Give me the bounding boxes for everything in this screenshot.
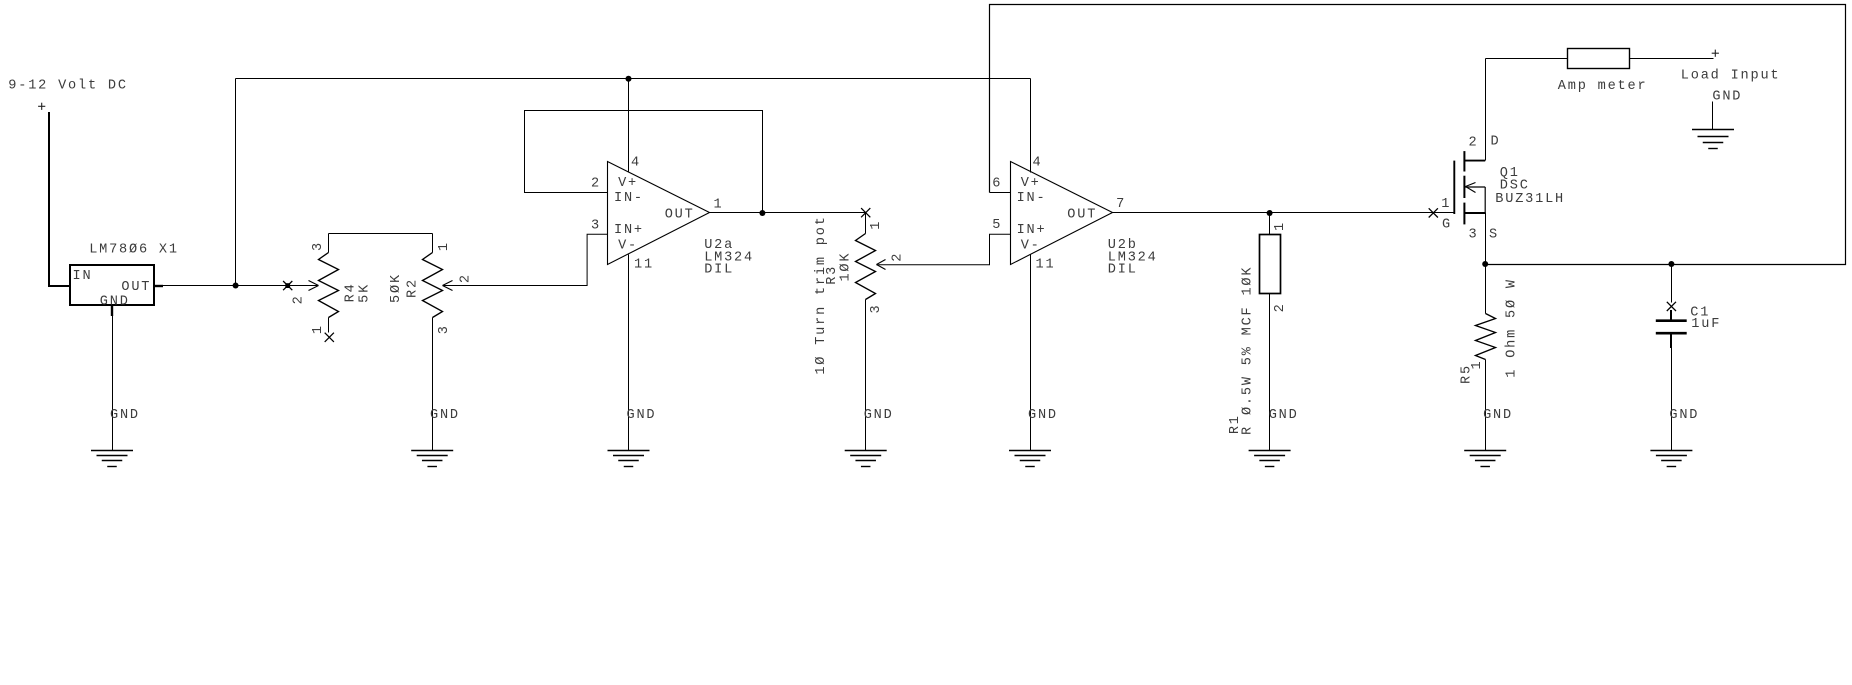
svg-text:R5: R5 — [1459, 364, 1474, 384]
wire input to regulator IN — [49, 112, 70, 286]
svg-text:V+: V+ — [1021, 176, 1041, 191]
wire U2a pin 11 to ground — [628, 255, 630, 451]
ground symbol at R2 — [411, 451, 453, 467]
ground symbol at C1 — [1650, 451, 1692, 467]
svg-text:IN+: IN+ — [614, 223, 644, 238]
junction Q1 source node — [1482, 261, 1488, 267]
wire riser VREG to top rail — [235, 79, 237, 286]
svg-text:S: S — [1489, 228, 1499, 243]
op-amp U2b triangle — [1011, 162, 1113, 265]
svg-text:5ØK: 5ØK — [389, 273, 404, 303]
svg-text:R4: R4 — [344, 282, 359, 302]
junction X marker at R4 wiper node — [283, 281, 292, 290]
svg-text:GND: GND — [627, 408, 657, 423]
svg-text:OUT: OUT — [121, 280, 151, 295]
trim pot R3 body — [856, 234, 876, 300]
svg-text:1: 1 — [1273, 221, 1288, 231]
svg-text:OUT: OUT — [665, 207, 695, 222]
svg-text:DIL: DIL — [1108, 263, 1138, 278]
junction U2a output node — [759, 210, 765, 216]
svg-text:1ØK: 1ØK — [838, 252, 853, 282]
svg-text:IN: IN — [73, 269, 93, 284]
wire amp meter to load plus — [1630, 58, 1714, 60]
ground symbol at X1 — [91, 451, 133, 467]
svg-text:V-: V- — [1021, 238, 1041, 253]
ground symbol at load input — [1692, 130, 1734, 149]
svg-text:1Ø Turn trim pot: 1Ø Turn trim pot — [814, 215, 829, 374]
svg-text:2: 2 — [1469, 135, 1479, 150]
wire R3 wiper to U2b IN+ — [876, 234, 1010, 269]
svg-text:1: 1 — [311, 324, 326, 334]
wire U2a feedback OUT to IN- — [525, 111, 763, 213]
svg-text:5K: 5K — [357, 283, 372, 303]
plus terminal load input — [1712, 50, 1719, 57]
X marker C1 top node — [1667, 302, 1676, 311]
pin stub X1 OUT — [154, 285, 163, 287]
ground symbol at R1 — [1249, 451, 1291, 467]
wire R3 top — [865, 213, 867, 234]
wire R4 top — [328, 234, 330, 253]
svg-text:Amp meter: Amp meter — [1558, 79, 1648, 94]
wire U2a pin 4 from top rail — [628, 79, 630, 173]
svg-text:Load Input: Load Input — [1681, 68, 1781, 83]
svg-text:6: 6 — [992, 176, 1002, 191]
wire Q1 drain up to amp meter — [1485, 59, 1487, 161]
resistor R1 body — [1260, 235, 1281, 294]
ground symbol at U2a — [608, 451, 650, 467]
capacitor C1 plates — [1656, 321, 1687, 334]
svg-text:2: 2 — [291, 294, 306, 304]
junction top rail at U2a pin4 — [626, 76, 632, 82]
voltage regulator X1 LM7806 — [70, 265, 154, 305]
wire R4 wiper arrow — [288, 281, 319, 291]
pin stub C1 bottom — [1670, 333, 1672, 348]
wire R5 top — [1485, 265, 1487, 314]
svg-text:R Ø.5W 5% MCF 1ØK: R Ø.5W 5% MCF 1ØK — [1241, 266, 1256, 435]
wire C1 top — [1671, 265, 1673, 303]
svg-text:GND: GND — [1712, 89, 1742, 104]
svg-text:BUZ31LH: BUZ31LH — [1495, 192, 1565, 207]
potentiometer R2 body — [423, 253, 443, 318]
wire load ground stub — [1712, 102, 1714, 130]
svg-text:2: 2 — [591, 176, 601, 191]
wire R3 bottom to ground — [865, 300, 867, 451]
svg-text:IN+: IN+ — [1017, 223, 1047, 238]
svg-text:GND: GND — [864, 408, 894, 423]
pin stub C1 top — [1670, 310, 1672, 321]
ground symbol at U2b — [1009, 451, 1051, 467]
wire U2b output to Q1 gate — [1113, 212, 1455, 214]
svg-text:D: D — [1491, 135, 1501, 150]
transistor Q1 MOSFET symbol — [1454, 151, 1485, 224]
wire R2 top — [432, 234, 434, 253]
junction U2b output at R1 — [1267, 210, 1273, 216]
svg-text:1: 1 — [1441, 197, 1451, 212]
svg-text:11: 11 — [634, 258, 654, 273]
svg-text:R2: R2 — [405, 278, 420, 298]
svg-text:IN-: IN- — [614, 191, 644, 206]
svg-text:1: 1 — [437, 241, 452, 251]
svg-text:2: 2 — [890, 252, 905, 262]
svg-text:2: 2 — [458, 273, 473, 283]
junction node VREG at OUT — [233, 283, 239, 289]
wire U2a output to R3 — [710, 212, 866, 214]
svg-text:1: 1 — [869, 220, 884, 230]
op-amp U2a triangle — [608, 162, 710, 265]
X marker R3 pin 1 node — [861, 208, 870, 217]
svg-text:1uF: 1uF — [1691, 317, 1721, 332]
svg-text:2: 2 — [1273, 302, 1288, 312]
svg-text:4: 4 — [631, 156, 641, 171]
svg-text:9-12 Volt DC: 9-12 Volt DC — [8, 78, 128, 93]
svg-text:7: 7 — [1116, 197, 1126, 212]
junction C1 top node — [1668, 261, 1674, 267]
wire C1 bottom to ground — [1671, 348, 1673, 451]
svg-text:V+: V+ — [618, 176, 638, 191]
svg-text:GND: GND — [1483, 408, 1513, 423]
plus terminal 9-12V — [38, 103, 45, 110]
wire R4 bottom to pin 1 — [328, 318, 330, 333]
wire U2b pin 4 drop from rail — [1030, 79, 1032, 173]
wire U2b pin 11 to ground — [1030, 255, 1032, 451]
wire drain to amp meter — [1486, 58, 1568, 60]
wire R2 wiper to U2a IN+ — [443, 234, 608, 290]
svg-text:GND: GND — [1269, 408, 1299, 423]
svg-text:OUT: OUT — [1067, 207, 1097, 222]
svg-text:3: 3 — [869, 304, 884, 314]
pin stub X1 GND — [111, 305, 113, 316]
wire top rail V+ — [236, 78, 1031, 80]
X marker Q1 gate node — [1429, 208, 1438, 217]
wire R1 bottom to ground — [1269, 294, 1271, 451]
wire R1 top — [1269, 213, 1271, 235]
wire R4 top to R2 top — [329, 233, 433, 235]
svg-text:GND: GND — [100, 295, 130, 310]
ground symbol at R5 — [1464, 451, 1506, 467]
potentiometer R4 body — [319, 253, 339, 318]
svg-text:3: 3 — [437, 324, 452, 334]
svg-text:1: 1 — [714, 198, 724, 213]
svg-text:GND: GND — [1669, 408, 1699, 423]
ground symbol at R3 — [845, 451, 887, 467]
wire Q1 source down to node — [1485, 213, 1487, 265]
svg-text:IN-: IN- — [1017, 191, 1047, 206]
svg-text:1 Ohm 5Ø W: 1 Ohm 5Ø W — [1504, 278, 1519, 378]
svg-text:V-: V- — [618, 238, 638, 253]
svg-text:5: 5 — [992, 218, 1002, 233]
wire R5 bottom to ground — [1485, 360, 1487, 451]
wire R2 bottom to ground — [432, 318, 434, 451]
svg-text:GND: GND — [110, 408, 140, 423]
svg-text:G: G — [1442, 218, 1452, 233]
X marker R4 pin 1 open — [325, 333, 334, 342]
svg-text:3: 3 — [591, 218, 601, 233]
svg-text:LM78Ø6 X1: LM78Ø6 X1 — [89, 242, 179, 257]
wire U2b pin 6 stub — [990, 192, 1011, 194]
resistor R5 body — [1476, 314, 1496, 360]
wire X1 OUT to R4 wiper node — [163, 285, 288, 287]
svg-text:GND: GND — [430, 408, 460, 423]
svg-text:DIL: DIL — [704, 263, 734, 278]
svg-text:GND: GND — [1028, 408, 1058, 423]
amp meter body — [1568, 49, 1630, 69]
svg-text:11: 11 — [1036, 258, 1056, 273]
wire X1 GND to ground — [112, 305, 114, 451]
svg-text:3: 3 — [311, 241, 326, 251]
wire current sense feedback loop box — [990, 5, 1846, 265]
svg-text:3: 3 — [1469, 228, 1479, 243]
svg-text:4: 4 — [1033, 155, 1043, 170]
